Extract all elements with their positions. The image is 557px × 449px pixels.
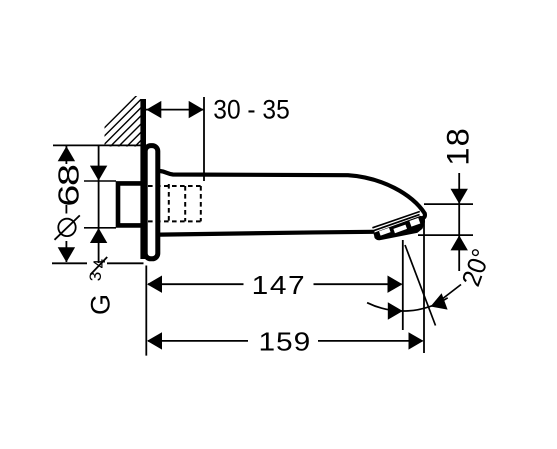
angle 20 arc xyxy=(367,298,448,311)
dimension 18 top arrow (points down) xyxy=(451,189,468,204)
spout face chamfer line 2 xyxy=(373,215,419,231)
dimension Ø68 dimension line xyxy=(65,146,67,164)
aerator slot left xyxy=(379,228,391,236)
G3/4 pipe extension line top xyxy=(84,180,116,182)
dimension G3/4 top arrow (points down) xyxy=(90,166,107,181)
label Ø68 diameter symbol xyxy=(58,219,75,236)
angle 20 arrow at slanted line (points down-left) xyxy=(431,293,448,309)
aerator band xyxy=(374,217,424,240)
dimension 30-35 left arrow xyxy=(146,101,161,118)
dimension 159 right extension line xyxy=(423,215,425,353)
dimension 159 dimension line xyxy=(148,340,248,342)
G3/4 pipe extension line bottom xyxy=(84,227,116,229)
dimension 147 right arrow xyxy=(388,276,403,293)
dimension 18 dimension line xyxy=(458,173,460,271)
angle 20 leader line xyxy=(437,285,461,304)
wall hatching xyxy=(96,91,141,202)
svg-text:30 - 35: 30 - 35 xyxy=(213,95,289,124)
svg-text:159: 159 xyxy=(259,327,312,356)
dimension G3/4 dimension line xyxy=(98,146,100,263)
svg-text:G: G xyxy=(86,294,116,315)
dimension 147 right extension line xyxy=(402,240,404,330)
dimension 18 top extension line xyxy=(424,203,473,205)
dimension 147 dimension line xyxy=(148,283,244,285)
dimension 30-35 extension line xyxy=(203,97,205,181)
svg-text:3: 3 xyxy=(86,272,105,281)
G3/4 pipe nipple xyxy=(118,183,146,225)
angle 20 arrow at vertical line (points right) xyxy=(388,302,403,319)
spout body bottom outline xyxy=(161,232,373,235)
svg-text:147: 147 xyxy=(252,271,307,300)
dimension G3/4 bottom arrow (points up) xyxy=(90,228,107,243)
hidden socket dashed outline xyxy=(148,184,201,223)
aerator slot middle xyxy=(393,225,407,234)
escutcheon flange xyxy=(145,146,158,259)
dimension 159 right arrow xyxy=(409,332,424,349)
dimension Ø68 top extension line xyxy=(53,144,141,146)
dimension 18 bottom arrow (points up) xyxy=(451,235,468,250)
aerator slot right xyxy=(409,218,420,227)
spout body top outline xyxy=(160,171,425,218)
dimension 30-35 right arrow xyxy=(189,101,204,118)
wall line xyxy=(140,99,146,259)
dimension 18 bottom extension line xyxy=(418,234,473,236)
dimension Ø68 bottom arrow xyxy=(58,247,75,262)
svg-text:4: 4 xyxy=(90,259,109,268)
spout face chamfer line 1 xyxy=(372,212,419,228)
angle 20 slanted line xyxy=(405,245,436,326)
dimension Ø68 bottom extension line xyxy=(52,262,87,264)
dimension 30-35 dimension line xyxy=(146,109,204,111)
svg-text:18: 18 xyxy=(440,127,475,166)
dimension Ø68 top arrow xyxy=(58,146,75,161)
dimension 147 left arrow xyxy=(147,276,162,293)
svg-text:68: 68 xyxy=(54,165,85,206)
dimension 147 left extension line xyxy=(145,266,147,356)
dimension 159 left arrow xyxy=(147,332,162,349)
